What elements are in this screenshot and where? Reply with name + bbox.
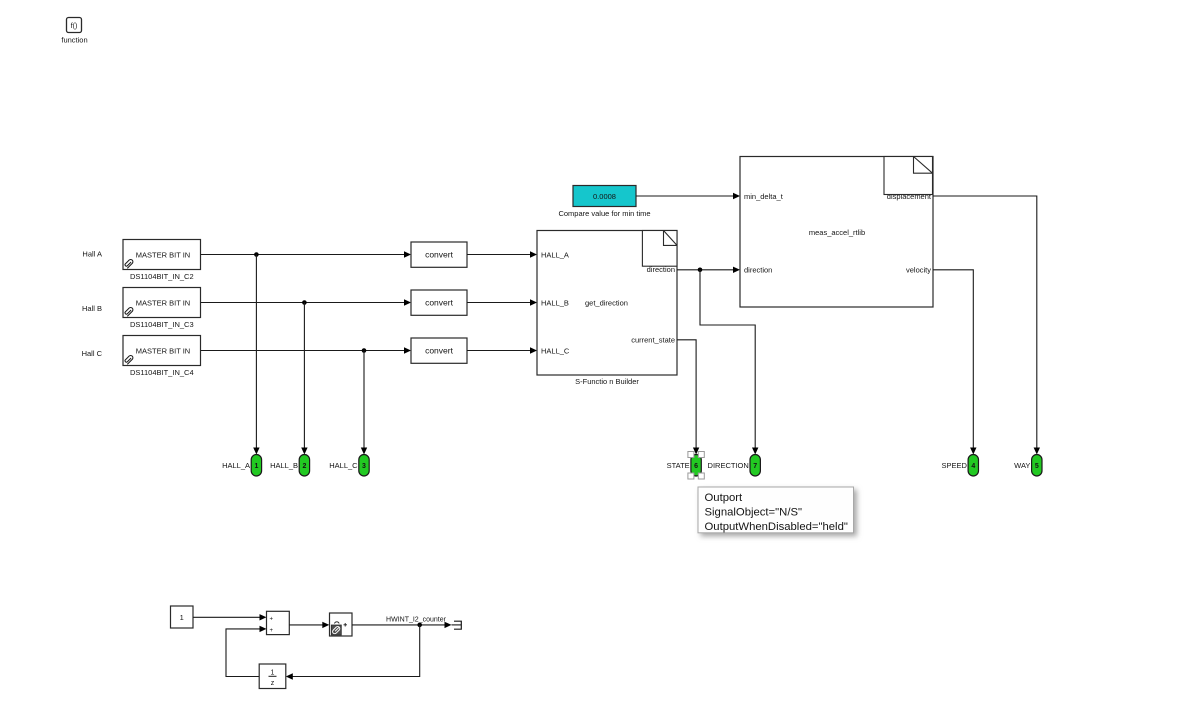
- svg-text:1: 1: [271, 670, 275, 677]
- svg-text:SPEED: SPEED: [941, 461, 967, 470]
- outport 3 HALL_C: [329, 455, 369, 477]
- outport 7 DIRECTION: [708, 455, 761, 477]
- svg-text:4: 4: [971, 463, 975, 470]
- svg-text:1: 1: [180, 613, 184, 622]
- s-function block get_direction: [537, 231, 677, 376]
- outport 6 STATE selected: [667, 452, 705, 480]
- outport 1 HALL_A: [222, 455, 262, 477]
- block DS1104BIT_IN_C3: [123, 288, 201, 318]
- wire branch C down to outport 3: [361, 351, 367, 455]
- junction dot node C: [362, 348, 367, 353]
- svg-text:HALL_B: HALL_B: [541, 299, 569, 308]
- wire convert3 to HALL_C port: [467, 347, 537, 353]
- svg-text:Hall B: Hall B: [82, 304, 102, 313]
- svg-text:function: function: [61, 36, 87, 45]
- wire velocity to outport 4: [933, 270, 977, 455]
- svg-text:DS1104BIT_IN_C3: DS1104BIT_IN_C3: [130, 320, 194, 329]
- svg-text:convert: convert: [425, 346, 454, 356]
- wire branch A down to outport 1: [253, 255, 259, 455]
- block convert1: [411, 242, 467, 267]
- wire Hall A to convert1: [201, 251, 411, 257]
- svg-text:DIRECTION: DIRECTION: [708, 461, 749, 470]
- junction dot node direction: [698, 268, 703, 273]
- svg-text:z: z: [271, 680, 275, 687]
- junction dot feedback: [417, 623, 422, 628]
- svg-text:WAY: WAY: [1014, 461, 1030, 470]
- svg-text:min_delta_t: min_delta_t: [744, 192, 784, 201]
- block constant 1: [171, 606, 194, 628]
- wire current_state to outport 6: [677, 340, 699, 455]
- svg-text:HALL_B: HALL_B: [270, 461, 298, 470]
- block unit delay 1/z: [259, 664, 286, 689]
- wire convert1 to HALL_A port: [467, 251, 537, 257]
- svg-text:OutputWhenDisabled="held": OutputWhenDisabled="held": [705, 521, 848, 533]
- wire feedback down and to unit delay: [286, 625, 420, 680]
- junction dot node A: [254, 252, 259, 257]
- svg-text:HWINT_I2_counter: HWINT_I2_counter: [386, 617, 447, 624]
- page icon on s-function: [642, 231, 677, 267]
- svg-text:STATE: STATE: [667, 461, 690, 470]
- svg-text:get_direction: get_direction: [585, 299, 628, 308]
- wire direction out to meas block: [677, 267, 740, 273]
- svg-text:DS1104BIT_IN_C4: DS1104BIT_IN_C4: [130, 368, 194, 377]
- svg-text:MASTER BIT IN: MASTER BIT IN: [136, 347, 190, 356]
- tooltip Outport: [698, 487, 854, 533]
- svg-text:convert: convert: [425, 298, 454, 308]
- svg-text:Outport: Outport: [705, 492, 744, 504]
- block HWINT counter icon: [330, 613, 353, 636]
- svg-text:7: 7: [753, 463, 757, 470]
- svg-text:Hall C: Hall C: [82, 349, 103, 358]
- svg-text:1: 1: [254, 463, 258, 470]
- junction dot node B: [302, 300, 307, 305]
- svg-text:+: +: [269, 628, 273, 634]
- svg-text:5: 5: [1035, 463, 1039, 470]
- svg-text:Hall A: Hall A: [82, 250, 102, 259]
- wire displacement to outport 5: [933, 196, 1040, 455]
- constant Compare value for min time: [573, 186, 636, 207]
- svg-text:current_state: current_state: [631, 336, 675, 345]
- wire Hall B to convert2: [201, 299, 411, 305]
- block convert2: [411, 290, 467, 315]
- block convert3: [411, 338, 467, 363]
- wire counter to terminator: [352, 622, 461, 628]
- block sum: [267, 611, 290, 634]
- svg-text:f(): f(): [71, 23, 78, 30]
- wire branch direction to outport 7: [700, 270, 758, 455]
- wire convert2 to HALL_B port: [467, 299, 537, 305]
- wire Hall C to convert3: [201, 347, 411, 353]
- block meas_accel_rtlib: [740, 157, 933, 308]
- svg-text:S-Functio n Builder: S-Functio n Builder: [575, 377, 639, 386]
- svg-text:HALL_C: HALL_C: [541, 347, 570, 356]
- svg-text:MASTER BIT IN: MASTER BIT IN: [136, 299, 190, 308]
- svg-text:HALL_A: HALL_A: [222, 461, 250, 470]
- svg-text:MASTER BIT IN: MASTER BIT IN: [136, 251, 190, 260]
- svg-text:HALL_A: HALL_A: [541, 251, 569, 260]
- svg-text:6: 6: [694, 463, 698, 470]
- outport 5 WAY: [1014, 455, 1042, 477]
- page icon on meas_accel_rtlib: [884, 157, 933, 195]
- svg-text:DS1104BIT_IN_C2: DS1104BIT_IN_C2: [130, 272, 194, 281]
- block DS1104BIT_IN_C4: [123, 336, 201, 366]
- wire sum to counter block: [289, 622, 329, 628]
- wire unit delay to sum input2: [226, 626, 267, 677]
- svg-text:3: 3: [362, 463, 366, 470]
- wire constant1 to sum: [193, 614, 267, 620]
- svg-text:HALL_C: HALL_C: [329, 461, 358, 470]
- svg-text:meas_accel_rtlib: meas_accel_rtlib: [809, 228, 865, 237]
- terminator icon: [454, 621, 461, 629]
- svg-text:+: +: [269, 617, 273, 623]
- svg-text:direction: direction: [744, 266, 772, 275]
- svg-text:velocity: velocity: [906, 266, 931, 275]
- svg-text:convert: convert: [425, 250, 454, 260]
- block DS1104BIT_IN_C2: [123, 240, 201, 270]
- function block U_f: [67, 18, 82, 33]
- svg-text:0.0008: 0.0008: [593, 192, 616, 201]
- svg-text:2: 2: [302, 463, 306, 470]
- wire constant to min_delta_t: [636, 193, 740, 199]
- svg-text:SignalObject="N/S": SignalObject="N/S": [705, 506, 803, 518]
- outport 4 SPEED: [941, 455, 978, 477]
- svg-text:Compare value for min time: Compare value for min time: [558, 209, 650, 218]
- wire branch B down to outport 2: [301, 303, 307, 455]
- outport 2 HALL_B: [270, 455, 310, 477]
